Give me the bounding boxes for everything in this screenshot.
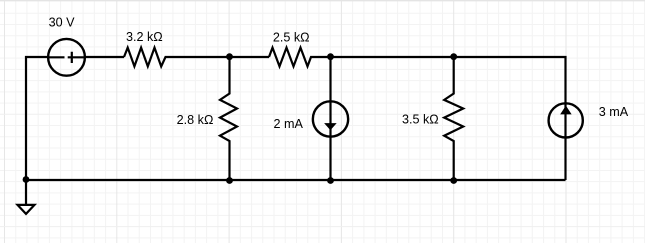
svg-text:2.5 kΩ: 2.5 kΩ	[273, 31, 310, 45]
svg-text:3.2 kΩ: 3.2 kΩ	[126, 30, 163, 44]
svg-text:30 V: 30 V	[49, 16, 76, 30]
svg-text:3 mA: 3 mA	[599, 105, 629, 119]
svg-text:3.5 kΩ: 3.5 kΩ	[402, 113, 439, 127]
svg-text:2.8 kΩ: 2.8 kΩ	[177, 113, 214, 127]
svg-text:2 mA: 2 mA	[273, 117, 303, 131]
